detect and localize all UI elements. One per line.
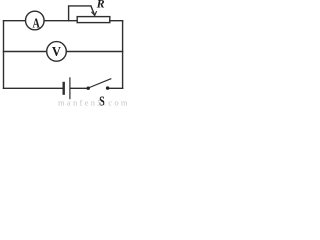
svg-text:A: A — [33, 15, 41, 31]
svg-text:V: V — [52, 44, 61, 60]
svg-text:manfen5.com: manfen5.com — [58, 98, 127, 108]
svg-text:R: R — [96, 0, 105, 11]
